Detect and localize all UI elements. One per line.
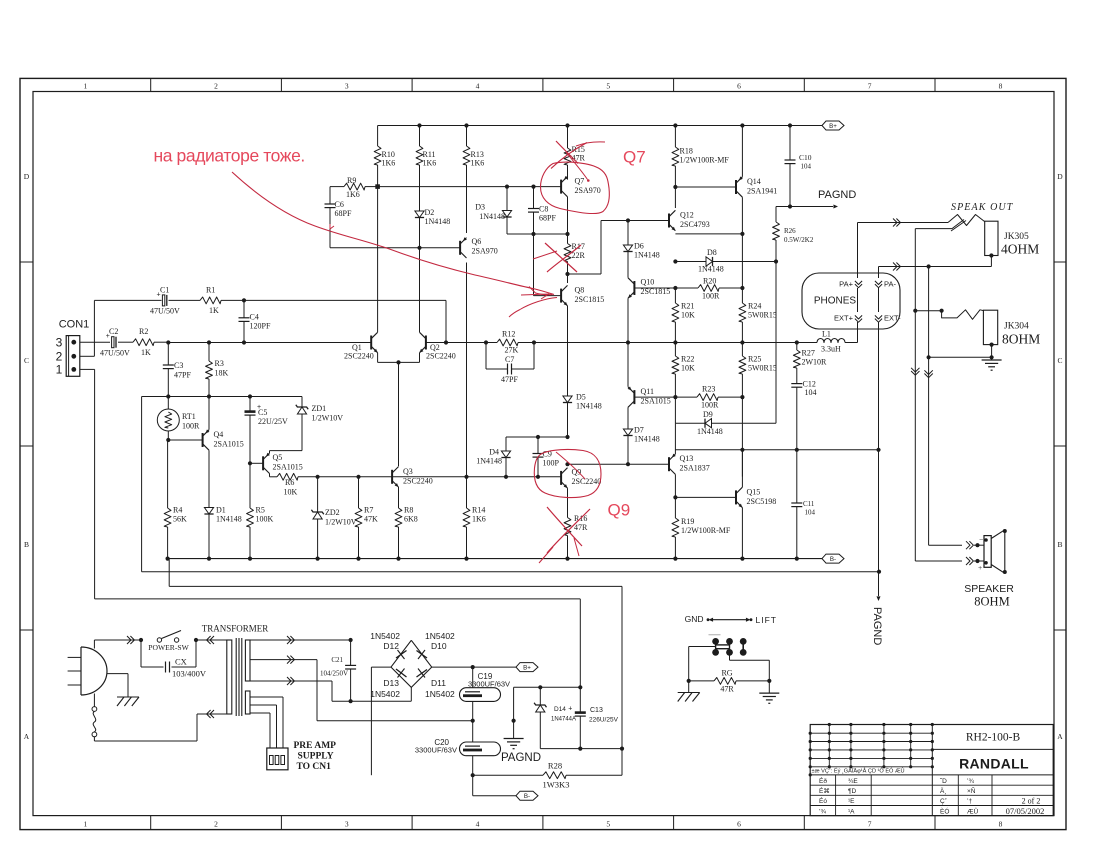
resistor R14 1K6 bbox=[466, 263, 468, 509]
svg-text:7: 7 bbox=[868, 819, 872, 828]
svg-text:SPEAK OUT: SPEAK OUT bbox=[951, 202, 1014, 213]
junction output rail / R21-R22 column bbox=[673, 340, 677, 344]
transistor Q13 2SA1837 bbox=[668, 457, 670, 471]
AC plug bbox=[80, 647, 82, 695]
wire rail between Q2 and R12 bbox=[446, 342, 486, 344]
svg-text:22R: 22R bbox=[572, 251, 586, 260]
svg-text:2 of 2: 2 of 2 bbox=[1022, 796, 1041, 805]
svg-text:PA+: PA+ bbox=[839, 280, 853, 289]
wire Q13 emitter to row 450 bbox=[674, 423, 676, 454]
svg-text:D8: D8 bbox=[707, 248, 717, 257]
wire Q15 base row bbox=[675, 496, 736, 498]
svg-text:EXT+: EXT+ bbox=[834, 314, 854, 323]
svg-text:C1: C1 bbox=[160, 286, 169, 295]
junction D8 right / R26 col bbox=[774, 259, 778, 263]
svg-text:R18: R18 bbox=[680, 147, 693, 156]
svg-text:D7: D7 bbox=[634, 426, 644, 435]
transistor Q6 2SA970 bbox=[459, 241, 461, 255]
junction R17 bottom to Q12 base jog bbox=[565, 272, 569, 276]
svg-text:¶D: ¶D bbox=[848, 788, 856, 795]
junction R17 top bbox=[565, 232, 569, 236]
transistor Q2 2SC2240 (mirrored) bbox=[425, 336, 427, 350]
diode D1 1N4148 bbox=[204, 508, 213, 515]
svg-text:0.5W/2K2: 0.5W/2K2 bbox=[784, 236, 814, 244]
svg-text:RT1: RT1 bbox=[182, 412, 196, 421]
resistor R9 bbox=[330, 186, 344, 188]
svg-text:7: 7 bbox=[868, 81, 872, 90]
svg-text:1N5402: 1N5402 bbox=[370, 631, 400, 641]
red X over R15 bbox=[556, 141, 578, 164]
svg-text:47R: 47R bbox=[720, 685, 734, 694]
svg-text:R24: R24 bbox=[748, 302, 761, 311]
svg-text:3300UF/63V: 3300UF/63V bbox=[415, 746, 457, 755]
svg-text:2SA1941: 2SA1941 bbox=[747, 187, 777, 196]
resistor R27 2W10R bbox=[796, 343, 798, 351]
svg-text:PHONES: PHONES bbox=[814, 296, 857, 307]
svg-text:¾E: ¾E bbox=[848, 778, 858, 785]
wire Q12 emitter row to Q14 collector bbox=[675, 233, 742, 235]
junction on B+ rail bbox=[565, 123, 569, 127]
svg-text:1N5402: 1N5402 bbox=[370, 689, 400, 699]
diode D13 1N5402 bbox=[398, 669, 405, 678]
resistor R25 5W0R15 bbox=[741, 343, 743, 357]
svg-text:27K: 27K bbox=[505, 346, 519, 355]
junction Q12 base / D6 column bbox=[626, 218, 630, 222]
svg-text:+: + bbox=[568, 706, 572, 713]
svg-text:47U/50V: 47U/50V bbox=[100, 349, 130, 358]
wire tail current down to Q3 bbox=[398, 362, 400, 466]
svg-text:1N4744A: 1N4744A bbox=[551, 717, 576, 723]
svg-text:100K: 100K bbox=[256, 515, 274, 524]
svg-text:R23: R23 bbox=[702, 385, 715, 394]
wire main input rail bbox=[168, 342, 371, 344]
svg-text:Ç˚: Ç˚ bbox=[940, 797, 947, 805]
chassis ground left bbox=[688, 681, 690, 693]
svg-text:R21: R21 bbox=[681, 302, 694, 311]
junction C4 bottom bbox=[242, 340, 246, 344]
wire switch to transformer bbox=[196, 639, 227, 641]
svg-text:R19: R19 bbox=[681, 517, 694, 526]
svg-text:TO CN1: TO CN1 bbox=[297, 762, 332, 772]
red arrow inside Q7 circle bbox=[566, 152, 588, 180]
svg-text:D3: D3 bbox=[475, 203, 485, 212]
svg-text:2SC4793: 2SC4793 bbox=[680, 220, 710, 229]
svg-text:D2: D2 bbox=[425, 208, 435, 217]
resistor R24 5W0R15 bbox=[741, 234, 743, 303]
svg-text:Q14: Q14 bbox=[747, 177, 761, 186]
wire EXT- col to rail572 and PAGND arrow bbox=[878, 450, 880, 572]
wire Q14 emitter to B+ rail bbox=[741, 126, 743, 177]
svg-text:’¾: ’¾ bbox=[819, 808, 826, 815]
svg-text:1K6: 1K6 bbox=[472, 515, 486, 524]
speaker 8OHM icon bbox=[984, 536, 991, 568]
svg-text:на радиаторе тоже.: на радиаторе тоже. bbox=[154, 146, 305, 166]
transistor Q15 2SC5198 bbox=[735, 490, 737, 504]
svg-text:100R: 100R bbox=[702, 292, 720, 301]
junction on B- rail bbox=[248, 557, 252, 561]
svg-text:104: 104 bbox=[801, 163, 812, 171]
wire JK305 tip line bbox=[858, 222, 949, 224]
svg-text:C11: C11 bbox=[803, 500, 815, 508]
wire D4/C9 top row bbox=[505, 437, 507, 451]
capacitor C21 104/250V bbox=[350, 640, 352, 665]
resistor R5 100K bbox=[247, 508, 254, 527]
svg-text:R17: R17 bbox=[572, 242, 585, 251]
svg-text:ÆÛ: ÆÛ bbox=[967, 806, 979, 815]
wire pin1 down to ground rail bbox=[80, 368, 95, 370]
resistor R3 18K bbox=[208, 343, 210, 362]
chevron EXT- bbox=[875, 315, 882, 322]
zener ZD1 1/2W10V bbox=[301, 397, 303, 408]
zener ZD2 1/2W10V bbox=[317, 477, 319, 512]
junction on B+ rail bbox=[788, 123, 792, 127]
fuse on neutral bbox=[92, 707, 97, 712]
wire Q15 emitter down to B- rail bbox=[741, 508, 743, 559]
junction speaker plus bbox=[975, 559, 979, 563]
chevron live wire bbox=[127, 636, 134, 644]
wire Q4 base row bbox=[168, 439, 202, 441]
junction D7 bottom / Q13 base row bbox=[626, 462, 630, 466]
wire D3-C8 bottom row bbox=[507, 233, 568, 235]
svg-text:C3: C3 bbox=[174, 361, 183, 370]
chevron on tip line bbox=[893, 219, 900, 227]
junction on B+ rail bbox=[417, 123, 421, 127]
resistor R28 1W3K3 bbox=[473, 774, 543, 776]
junction R3 top bbox=[207, 340, 211, 344]
wire Q1 collector up to R10 bbox=[377, 182, 379, 332]
svg-text:1/2W10V: 1/2W10V bbox=[325, 518, 357, 527]
svg-text:TRANSFORMER: TRANSFORMER bbox=[202, 624, 269, 634]
bridge rectifier diamond bbox=[391, 640, 432, 687]
wire Q11 emitter to D7 bbox=[627, 407, 629, 429]
svg-text:C4: C4 bbox=[250, 313, 259, 322]
junction R23 right bbox=[740, 395, 744, 399]
red circle around Q7 bbox=[541, 162, 610, 213]
red arrow inside Q9 circle bbox=[556, 452, 585, 479]
svg-text:D: D bbox=[1057, 172, 1063, 181]
svg-text:R7: R7 bbox=[364, 506, 373, 515]
wire to speaker minus bbox=[929, 544, 962, 546]
wire Q5 base row bbox=[250, 462, 263, 464]
svg-text:C13: C13 bbox=[590, 707, 603, 714]
wire x622 down to R28 rail bbox=[621, 749, 623, 776]
svg-text:3: 3 bbox=[56, 336, 63, 350]
junction C13 top bbox=[578, 685, 582, 689]
svg-text:D14: D14 bbox=[554, 706, 566, 713]
wire Q8 emitter down to D5 bbox=[567, 306, 569, 396]
wire bias box top rail bbox=[142, 396, 302, 398]
svg-text:D4: D4 bbox=[489, 448, 499, 457]
svg-text:5W0R15: 5W0R15 bbox=[748, 364, 777, 373]
svg-text:CX: CX bbox=[175, 657, 187, 667]
svg-text:07/05/2002: 07/05/2002 bbox=[1006, 806, 1045, 816]
wire Q4 emitter to rail bbox=[208, 397, 210, 430]
switch POWER-SW bbox=[157, 638, 161, 642]
svg-text:1N4148: 1N4148 bbox=[216, 515, 242, 524]
junction switch right bbox=[194, 638, 198, 642]
junction Q12-emitter/Q14-collector bbox=[740, 232, 744, 236]
node B- marker bbox=[822, 554, 844, 563]
wire preamp dc node row bbox=[514, 686, 581, 688]
svg-text:GND: GND bbox=[685, 614, 704, 624]
svg-text:47U/50V: 47U/50V bbox=[150, 307, 180, 316]
svg-text:1K6: 1K6 bbox=[382, 159, 396, 168]
transistor Q1 2SC2240 bbox=[370, 336, 372, 350]
resistor R10 bbox=[377, 126, 379, 147]
wire pin3 to C2 bbox=[80, 341, 110, 343]
svg-text:10K: 10K bbox=[681, 311, 695, 320]
svg-text:B-: B- bbox=[830, 556, 836, 563]
junction C21 top bbox=[349, 638, 353, 642]
wire C1 top rail bbox=[94, 299, 161, 301]
CON1 pin 1 bbox=[71, 367, 76, 372]
junction D2 bottom bbox=[417, 246, 421, 250]
wire Q7 base row bbox=[378, 186, 561, 188]
svg-text:D13: D13 bbox=[383, 678, 399, 688]
wire secondary top bbox=[250, 639, 351, 641]
svg-text:47PF: 47PF bbox=[174, 371, 191, 380]
svg-text:Ä¸: Ä¸ bbox=[940, 787, 947, 795]
svg-text:D9: D9 bbox=[703, 410, 713, 419]
capacitor C19 3300UF/63V bbox=[472, 667, 474, 688]
wire JK304 sleeve to ground row bbox=[991, 345, 993, 358]
svg-text:2SA1015: 2SA1015 bbox=[641, 397, 671, 406]
junction Q9 collector row to Q13 bbox=[565, 462, 569, 466]
svg-text:100P: 100P bbox=[543, 459, 560, 468]
arrow down on speaker- column bbox=[924, 370, 932, 377]
wire C8 col to Q8 base bbox=[533, 234, 535, 296]
junction Q13 collector / R19 bbox=[673, 495, 677, 499]
junction output rail / Q10-Q11 column bbox=[626, 340, 630, 344]
resistor R15 bbox=[567, 126, 569, 149]
resistor R26 0.5W/2K2 bbox=[776, 206, 790, 208]
wire speaker+ column bbox=[914, 229, 916, 561]
wire JK305 switch line bbox=[915, 228, 944, 230]
resistor R4 56K bbox=[167, 440, 169, 508]
svg-text:¹A: ¹A bbox=[848, 808, 855, 815]
junction on B- rail bbox=[396, 557, 400, 561]
wire Q3-Q9 base row bbox=[318, 476, 561, 478]
chassis ground from plug bbox=[107, 673, 128, 675]
transistor Q3 2SC2240 bbox=[391, 470, 393, 484]
wire JK305 sleeve to PA- row bbox=[990, 256, 992, 267]
wire R6 to ZD2 junction bbox=[298, 476, 318, 478]
svg-text:Q7: Q7 bbox=[575, 177, 585, 186]
svg-text:D6: D6 bbox=[634, 242, 644, 251]
arrow GND-LIFT bbox=[713, 619, 746, 621]
wire Q9 emitter to R16 bbox=[567, 488, 569, 517]
junction on B- rail bbox=[740, 557, 744, 561]
red scribble near Q8 bbox=[520, 298, 557, 310]
svg-text:R9: R9 bbox=[347, 176, 356, 185]
junction JK304 sleeve bbox=[990, 343, 994, 347]
junction on Q9 column bbox=[565, 435, 569, 439]
node PAGND arrow top bbox=[788, 204, 792, 208]
svg-text:JK305: JK305 bbox=[1004, 232, 1029, 242]
junction C19/C20 midrail bbox=[471, 719, 475, 723]
junction RG right bbox=[767, 679, 771, 683]
svg-text:5: 5 bbox=[606, 819, 610, 828]
wire plug top to switch bbox=[93, 640, 95, 649]
svg-text:1/2W100R-MF: 1/2W100R-MF bbox=[680, 156, 730, 165]
wire to B- marker PSU bbox=[472, 775, 474, 796]
svg-text:B: B bbox=[24, 540, 29, 549]
wire B- rail bbox=[168, 558, 822, 560]
svg-text:1K6: 1K6 bbox=[423, 159, 437, 168]
junction D3 top bbox=[505, 185, 509, 189]
svg-text:Q11: Q11 bbox=[641, 387, 654, 396]
svg-text:104: 104 bbox=[805, 509, 816, 517]
svg-text:R25: R25 bbox=[748, 355, 761, 364]
svg-text:EXT-: EXT- bbox=[884, 314, 901, 323]
svg-text:104/250V: 104/250V bbox=[320, 670, 348, 678]
junction R27 col on row450 bbox=[795, 448, 799, 452]
diode D7 1N4148 bbox=[623, 429, 632, 436]
junction D4 bottom bbox=[504, 475, 508, 479]
svg-text:POWER-SW: POWER-SW bbox=[148, 643, 189, 652]
svg-text:L1: L1 bbox=[822, 330, 831, 339]
wire Q10/Q11 center column bbox=[627, 298, 629, 387]
transistor Q11 2SA1015 bbox=[633, 390, 635, 404]
svg-text:47R: 47R bbox=[574, 523, 588, 532]
node junction R9/R10 bbox=[375, 184, 380, 189]
junction R21 top bbox=[673, 286, 677, 290]
svg-text:6K8: 6K8 bbox=[404, 515, 418, 524]
junction EXT- on row450 bbox=[876, 448, 880, 452]
red X over R17 bbox=[545, 243, 577, 272]
svg-text:4: 4 bbox=[476, 819, 480, 828]
wire PA+/EXT+ column bbox=[857, 223, 859, 279]
svg-text:1/2W100R-MF: 1/2W100R-MF bbox=[681, 526, 731, 535]
svg-text:1/2W10V: 1/2W10V bbox=[312, 414, 344, 423]
junction R14 top bbox=[464, 475, 468, 479]
svg-text:˜D: ˜D bbox=[939, 778, 947, 785]
svg-text:Q15: Q15 bbox=[747, 488, 761, 497]
svg-text:B: B bbox=[1057, 540, 1062, 549]
svg-text:2W10R: 2W10R bbox=[802, 358, 828, 367]
junction C5 top bbox=[248, 394, 252, 398]
svg-text:18K: 18K bbox=[215, 369, 229, 378]
svg-text:C21: C21 bbox=[331, 656, 343, 664]
zener D14 1N4744A bbox=[539, 687, 541, 705]
wire pin2 up to C1 rail bbox=[80, 355, 95, 357]
svg-text:Q12: Q12 bbox=[680, 211, 694, 220]
wire Q13 base row bbox=[568, 463, 670, 465]
transistor Q8 2SC1815 bbox=[560, 289, 562, 303]
svg-text:C2: C2 bbox=[109, 327, 118, 336]
svg-text:−: − bbox=[979, 535, 983, 544]
wire speaker- column bbox=[928, 267, 930, 546]
svg-text:8OHM: 8OHM bbox=[1002, 332, 1040, 347]
svg-text:1N4148: 1N4148 bbox=[476, 457, 502, 466]
svg-text:2SC1815: 2SC1815 bbox=[575, 295, 605, 304]
capacitor C11 104 bbox=[796, 450, 798, 503]
svg-text:ÈÓ: ÈÓ bbox=[940, 806, 949, 815]
junction tip lever bbox=[940, 309, 944, 313]
wire Q11 base row bbox=[634, 396, 675, 398]
resistor R6 10K bbox=[277, 473, 298, 480]
diode D2 1N4148 bbox=[419, 207, 421, 211]
resistor R12 27K (inline) bbox=[497, 339, 518, 346]
capacitor C20 3300UF/63V bbox=[472, 721, 474, 742]
jack JK305 body bbox=[985, 221, 998, 255]
svg-text:8: 8 bbox=[999, 819, 1003, 828]
junction R22/Q11/R23 bbox=[673, 395, 677, 399]
resistor R19 1/2W100R-MF bbox=[674, 497, 676, 518]
svg-text:1W3K3: 1W3K3 bbox=[543, 780, 570, 790]
diode D11 1N5402 bbox=[418, 669, 425, 678]
wire Q7 collector to D3/C8 row bbox=[567, 197, 569, 234]
svg-text:1N4148: 1N4148 bbox=[479, 212, 505, 221]
svg-text:1N4148: 1N4148 bbox=[576, 402, 602, 411]
svg-text:+: + bbox=[978, 563, 982, 572]
svg-text:LIFT: LIFT bbox=[756, 615, 777, 625]
svg-text:R20: R20 bbox=[703, 277, 716, 286]
svg-text:D5: D5 bbox=[576, 393, 586, 402]
svg-text:2: 2 bbox=[214, 81, 218, 90]
diode D4 1N4148 bbox=[501, 451, 510, 458]
junction JK305 sleeve bbox=[989, 253, 993, 257]
resistor R2 1K bbox=[118, 341, 133, 343]
diode D6 1N4148 bbox=[627, 221, 629, 246]
wire PAGND stub bbox=[513, 687, 515, 738]
svg-text:6: 6 bbox=[737, 81, 741, 90]
junction C20 bottom bbox=[471, 773, 475, 777]
junction C4 top bbox=[242, 298, 246, 302]
wire Q14 collector down bbox=[741, 197, 743, 234]
resistor R8 6K8 bbox=[398, 487, 400, 508]
junction RT1 bottom / Q4 base bbox=[166, 438, 170, 442]
node B- marker PSU bbox=[516, 791, 538, 800]
svg-text:C6: C6 bbox=[335, 200, 344, 209]
svg-text:Éð: Éð bbox=[819, 776, 827, 785]
resistor R1 1K bbox=[200, 297, 221, 304]
svg-text:PRE AMP: PRE AMP bbox=[294, 741, 337, 751]
svg-text:2SA1015: 2SA1015 bbox=[214, 440, 244, 449]
svg-text:1: 1 bbox=[83, 819, 87, 828]
junction C19 top bbox=[471, 665, 475, 669]
wire preamp winding leads bbox=[250, 696, 283, 698]
wire Q1/Q2 emitter join bbox=[378, 361, 420, 363]
title RH2-100-B bbox=[932, 748, 1053, 750]
svg-text:A: A bbox=[1057, 732, 1063, 741]
junction JK304 tip bbox=[913, 309, 917, 313]
svg-text:1N4148: 1N4148 bbox=[425, 217, 451, 226]
red circle around Q9 bbox=[534, 449, 601, 497]
diode D10 1N5402 bbox=[418, 650, 425, 659]
wire jumper left to RG bbox=[689, 646, 716, 648]
title block dots bbox=[828, 723, 831, 726]
svg-text:C10: C10 bbox=[799, 153, 812, 162]
svg-text:Q6: Q6 bbox=[472, 237, 482, 246]
capacitor C7 47PF parallel loop bbox=[485, 343, 487, 370]
svg-text:103/400V: 103/400V bbox=[172, 669, 207, 679]
capacitor C13 226U/25V bbox=[579, 687, 581, 712]
svg-text:Q7: Q7 bbox=[623, 148, 646, 167]
resistor R21 10K bbox=[674, 288, 676, 303]
svg-text:SUPPLY: SUPPLY bbox=[298, 752, 334, 762]
svg-text:100R: 100R bbox=[701, 401, 719, 410]
svg-text:Q4: Q4 bbox=[214, 430, 224, 439]
svg-text:8: 8 bbox=[999, 81, 1003, 90]
svg-text:C7: C7 bbox=[505, 355, 514, 364]
svg-text:RANDALL: RANDALL bbox=[959, 755, 1029, 771]
svg-text:1N4148: 1N4148 bbox=[634, 435, 660, 444]
svg-text:R14: R14 bbox=[472, 506, 485, 515]
junction on B- rail bbox=[356, 557, 360, 561]
svg-text:R3: R3 bbox=[215, 359, 224, 368]
svg-text:56K: 56K bbox=[173, 515, 187, 524]
